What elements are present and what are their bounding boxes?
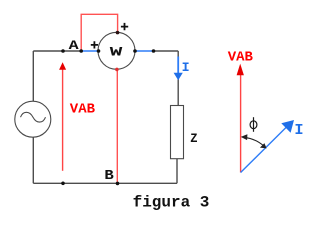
- angle phi symbol: stem: [253, 117, 255, 132]
- svg-text:I: I: [182, 60, 190, 75]
- junction dot bottom left (node under VAB arrow): [61, 182, 65, 186]
- impedance Z box: [171, 106, 184, 159]
- dot wattmeter bottom terminal (red): [115, 68, 119, 72]
- wire: blue segment from tap junction to wattmeter left terminal: [81, 50, 98, 52]
- blue current arrow I on right branch: [177, 57, 179, 74]
- wire: blue segment wattmeter right terminal to junction: [135, 50, 154, 52]
- svg-text:W: W: [110, 45, 123, 59]
- dot wattmeter top terminal: [116, 31, 120, 35]
- junction dot right of wattmeter: [152, 49, 156, 53]
- wire: top right black to corner: [154, 50, 179, 52]
- svg-text:figura 3: figura 3: [133, 194, 210, 212]
- phasor blue vector I: [241, 128, 286, 173]
- wire: right vertical down to Z: [177, 51, 179, 106]
- svg-text:B: B: [104, 169, 113, 184]
- wire: left vertical (source branch): [32, 51, 34, 183]
- junction dot node A: [61, 49, 65, 53]
- wattmeter U1 circle: [98, 32, 135, 69]
- red arrow VAB (circuit voltage arrow): [62, 69, 64, 171]
- wire: bottom horizontal: [33, 182, 177, 184]
- red voltage-coil loop from tap junction to wattmeter top: [81, 14, 117, 51]
- svg-text:VAB: VAB: [70, 102, 96, 118]
- wire: top horizontal black left segment: [33, 50, 81, 52]
- plus sign at wattmeter top terminal: [121, 23, 128, 30]
- wire: Z bottom to bottom wire: [176, 159, 178, 183]
- junction dot voltage tap: [79, 49, 83, 53]
- arc arrowhead right (at blue vector): [260, 143, 267, 148]
- dot wattmeter right terminal: [133, 49, 137, 53]
- svg-text:A: A: [69, 38, 79, 53]
- svg-text:Z: Z: [190, 131, 197, 146]
- junction dot node B: [116, 182, 120, 186]
- angle phi symbol: loop: [250, 121, 257, 129]
- svg-text:VAB: VAB: [228, 50, 254, 66]
- arc arrowhead left (at red vector): [241, 134, 248, 140]
- ac source G1 circle: [15, 101, 51, 137]
- angle arc: [243, 137, 264, 147]
- red wire wattmeter bottom to node B: [116, 69, 118, 183]
- svg-text:I: I: [294, 123, 303, 139]
- phasor red vector VAB: [240, 74, 242, 173]
- plus sign at wattmeter left terminal: [91, 41, 98, 48]
- dot wattmeter left terminal: [97, 49, 101, 53]
- ac source sine wave: [21, 112, 46, 122]
